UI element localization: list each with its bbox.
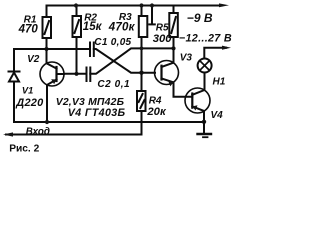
- node V4 emitter-bus-ground dot: [202, 120, 206, 124]
- wire node A to C1 left plate: [14, 48, 90, 50]
- svg-text:Д220: Д220: [15, 97, 44, 109]
- svg-text:−9 В: −9 В: [187, 11, 213, 25]
- wire R3 bottom through to V3 base node: [141, 37, 143, 73]
- resistor R4: [137, 91, 146, 111]
- svg-text:С1 0,05: С1 0,05: [94, 37, 131, 48]
- svg-text:470к: 470к: [108, 21, 136, 33]
- resistor R3: [139, 16, 148, 37]
- wire R5 top: [173, 6, 175, 14]
- wire bottom bus: [14, 121, 204, 123]
- svg-text:R4: R4: [149, 95, 162, 106]
- node R3/R4/V3 base dot: [139, 71, 143, 75]
- wire input line: [6, 134, 142, 136]
- input arrowhead: [3, 132, 13, 136]
- node rail-R2 dot: [74, 3, 78, 7]
- wire C2 right lead + cross up to V3 collector node: [90, 48, 173, 73]
- node rail-stub dot: [150, 3, 154, 7]
- ground: [203, 122, 205, 134]
- wire top rail -9V: [47, 6, 223, 18]
- wire R2 bottom to V2 base node: [76, 37, 78, 74]
- resistor R2: [73, 16, 82, 37]
- node V2 base dot: [74, 72, 78, 76]
- resistor R5: [169, 13, 178, 37]
- wire H1 top to -12..27V arrow: [204, 48, 226, 59]
- node V2 emitter-bus dot: [45, 120, 49, 124]
- transistor V2: [40, 62, 64, 86]
- svg-text:V1: V1: [22, 86, 33, 96]
- svg-text:20к: 20к: [146, 106, 167, 118]
- wire diode to bus: [13, 82, 15, 123]
- wire V2 base to C2: [64, 73, 87, 75]
- svg-text:Н1: Н1: [213, 77, 226, 88]
- svg-text:V2: V2: [27, 54, 40, 65]
- svg-text:15к: 15к: [83, 21, 103, 33]
- svg-text:300: 300: [153, 33, 173, 45]
- resistor R1: [43, 17, 52, 38]
- svg-text:Рис. 2: Рис. 2: [9, 144, 39, 155]
- node R5/V3 collector dot: [171, 46, 175, 50]
- wire R3 top: [141, 6, 143, 17]
- wire H1 bottom to V4 collector: [204, 73, 206, 89]
- transistor V4: [185, 88, 210, 113]
- transistor V3: [155, 61, 179, 85]
- svg-text:V3: V3: [180, 52, 193, 63]
- wire left drop to diode: [13, 49, 15, 71]
- svg-text:−12...27 В: −12...27 В: [179, 33, 232, 45]
- wire C1 right lead + cross down to V3 base: [94, 49, 155, 73]
- svg-text:V4: V4: [211, 110, 224, 121]
- wire R2 top: [76, 6, 78, 17]
- diode V1: [9, 71, 20, 73]
- lamp H1: [198, 59, 212, 73]
- wire rail arrowhead: [219, 3, 229, 7]
- node crossing blob: [140, 47, 144, 51]
- svg-text:470: 470: [18, 24, 39, 36]
- capacitor C1: [89, 43, 91, 57]
- terminal stub on rail: [151, 6, 153, 24]
- capacitor C2: [86, 68, 88, 82]
- wire R4 bottom to input line: [141, 111, 143, 135]
- wire R5 bottom: [173, 37, 175, 48]
- svg-text:Вход: Вход: [26, 127, 50, 138]
- wire R4 top: [141, 73, 143, 91]
- node A dot R1/V2 collector: [44, 47, 48, 51]
- svg-text:V4 ГТ403Б: V4 ГТ403Б: [68, 107, 126, 119]
- node rail-R3 dot: [139, 3, 143, 7]
- svg-text:С2 0,1: С2 0,1: [97, 79, 130, 90]
- wire R1 bottom: [46, 38, 48, 49]
